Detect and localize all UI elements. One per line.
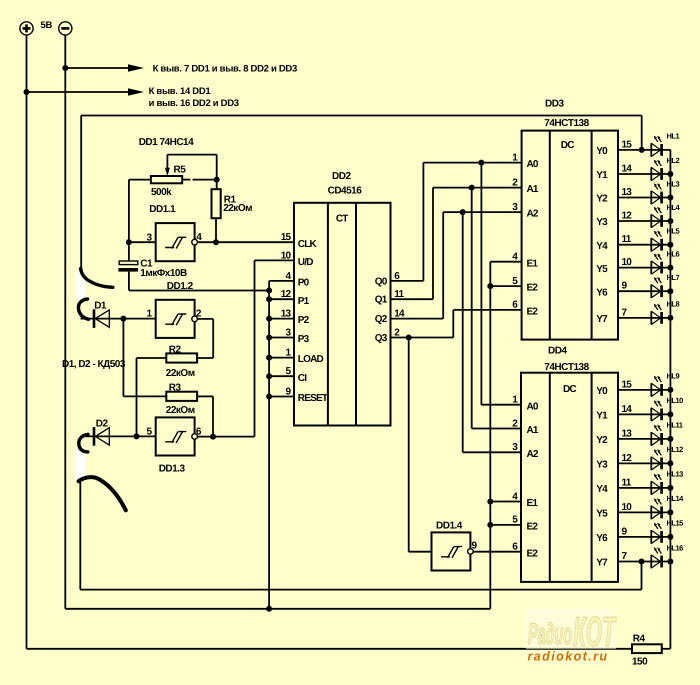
counter U DD2 CD4516 box xyxy=(294,203,391,426)
svg-text:DC: DC xyxy=(563,384,576,395)
power terminal +5V xyxy=(20,22,33,35)
svg-text:A1: A1 xyxy=(527,184,539,195)
svg-text:Q0: Q0 xyxy=(375,276,388,287)
svg-text:Y7: Y7 xyxy=(596,314,608,325)
svg-text:CLK: CLK xyxy=(298,239,318,250)
wire E2-5 DD4 xyxy=(490,524,521,526)
wire Q3 down to DD1.4 xyxy=(408,338,410,552)
junction RESET on P bus xyxy=(266,394,272,400)
wire D2 node xyxy=(81,435,156,437)
svg-text:Y3: Y3 xyxy=(596,460,608,471)
junction Q3 node xyxy=(406,335,412,341)
arrowhead 2 xyxy=(128,88,144,95)
svg-text:Y6: Y6 xyxy=(596,533,608,544)
svg-text:D1, D2 - КД503: D1, D2 - КД503 xyxy=(62,359,126,370)
capacitor C1 bottom plate xyxy=(118,268,138,272)
junction P3 on P bus xyxy=(266,335,272,341)
DD2 divider right xyxy=(355,203,357,426)
svg-text:74HCT138: 74HCT138 xyxy=(544,118,589,129)
junction R1 bottom on CLK wire xyxy=(213,239,219,245)
svg-text:12: 12 xyxy=(622,210,633,221)
svg-text:5В: 5В xyxy=(41,20,53,31)
wire Q1 up xyxy=(432,188,434,300)
diode D2 xyxy=(94,427,109,446)
wire stub RESET xyxy=(269,396,294,398)
svg-text:RESET: RESET xyxy=(298,393,328,404)
LED HL4 xyxy=(618,207,670,228)
R5 wiper arrowhead xyxy=(165,168,170,176)
svg-text:Y1: Y1 xyxy=(596,411,608,422)
junction CI on P bus xyxy=(266,373,272,379)
svg-text:Y7: Y7 xyxy=(596,558,608,569)
LED HL1 xyxy=(618,136,670,157)
resistor R3 xyxy=(166,392,197,401)
junction LED bus DD4 Y4 xyxy=(667,485,673,491)
wire - rail bottom horizontal xyxy=(65,608,490,610)
svg-text:HL13: HL13 xyxy=(667,470,684,479)
DD3 divider left xyxy=(549,131,551,340)
svg-text:15: 15 xyxy=(622,379,633,390)
capacitor C1 top plate xyxy=(119,261,138,265)
wire DD1.1 output to CLK xyxy=(197,241,294,243)
svg-text:R4: R4 xyxy=(633,633,646,644)
svg-text:DD1.2: DD1.2 xyxy=(167,281,194,292)
svg-text:500k: 500k xyxy=(151,187,172,198)
svg-text:LOAD: LOAD xyxy=(298,354,324,365)
hand-drawn stroke S4 xyxy=(79,477,126,510)
LED HL9 xyxy=(618,376,670,397)
junction LED bus DD4 Y3 xyxy=(667,460,673,466)
svg-text:Y3: Y3 xyxy=(596,217,608,228)
LED HL13 xyxy=(618,474,670,495)
schmitt trigger DD1.3 xyxy=(156,417,198,455)
wire D1 node vertical to R3 xyxy=(122,319,124,397)
svg-text:Y2: Y2 xyxy=(596,194,608,205)
wire DD1.1 input xyxy=(129,241,156,243)
svg-text:Q3: Q3 xyxy=(375,333,388,344)
svg-text:HL9: HL9 xyxy=(667,372,680,381)
junction E2-5 DD3 xyxy=(487,283,493,289)
wire DD1.3 output xyxy=(197,436,254,438)
svg-text:CT: CT xyxy=(336,213,348,224)
svg-text:P3: P3 xyxy=(298,334,310,345)
LED HL14 xyxy=(618,498,670,519)
white correction patch upper xyxy=(77,271,86,300)
LED HL3 xyxy=(618,183,670,204)
wire loop bottom xyxy=(80,589,641,591)
wire DD1.2 output xyxy=(197,318,213,320)
svg-text:Y0: Y0 xyxy=(596,146,608,157)
svg-text:22кОм: 22кОм xyxy=(166,368,195,379)
wire A1 line xyxy=(433,187,522,189)
wire A2 down xyxy=(462,212,464,452)
svg-text:Y1: Y1 xyxy=(596,170,608,181)
junction LED bus Y3 xyxy=(667,218,673,224)
junction LED bus DD4 Y0 xyxy=(667,387,673,393)
LED HL5 xyxy=(618,231,670,252)
wire left RC node vertical xyxy=(128,180,130,261)
svg-text:Радио: Радио xyxy=(528,618,572,651)
svg-text:HL1: HL1 xyxy=(667,132,680,141)
wire loop left upper xyxy=(80,116,82,271)
DD4 divider right xyxy=(591,373,593,582)
svg-text:Q2: Q2 xyxy=(375,314,388,325)
wire loop right upper xyxy=(641,116,643,150)
svg-text:HL14: HL14 xyxy=(667,494,685,503)
svg-text:HL2: HL2 xyxy=(667,156,680,165)
svg-text:22кОм: 22кОм xyxy=(223,203,252,214)
wire A2 to DD4 xyxy=(463,451,521,453)
wire R2 left vertical down xyxy=(136,358,138,436)
wire R5 right to R1 top b xyxy=(193,179,217,181)
svg-text:HL5: HL5 xyxy=(667,227,680,236)
wire Q2 out xyxy=(391,318,444,320)
svg-text:DD1.3: DD1.3 xyxy=(159,463,186,474)
svg-text:DC: DC xyxy=(561,140,574,151)
svg-text:Y5: Y5 xyxy=(596,264,608,275)
watermark halo xyxy=(526,609,616,649)
decoder U DD4 74HCT138 box xyxy=(521,373,618,582)
svg-text:Y0: Y0 xyxy=(596,386,608,397)
power terminal minus xyxy=(59,22,72,35)
decoder U DD3 74HCT138 box xyxy=(522,131,618,340)
wire stub P1 xyxy=(269,298,294,300)
wire Q3 up xyxy=(452,310,454,338)
wire A1 down xyxy=(471,188,473,429)
junction A0 split xyxy=(478,160,484,166)
wire loop left lower xyxy=(79,480,81,590)
wire stub P2 xyxy=(269,318,294,320)
wire E1 DD3 xyxy=(490,261,521,263)
resistor R5 xyxy=(151,176,182,183)
svg-text:12: 12 xyxy=(622,453,633,464)
junction P2 on P bus xyxy=(266,316,272,322)
svg-text:HL6: HL6 xyxy=(667,249,680,258)
junction E1 DD4 xyxy=(487,499,493,505)
svg-text:11: 11 xyxy=(622,477,632,488)
schmitt trigger DD1.4 xyxy=(432,532,474,570)
wire stub CI xyxy=(269,375,294,377)
diode D1 xyxy=(94,309,109,328)
svg-text:E2: E2 xyxy=(527,548,539,559)
svg-text:150: 150 xyxy=(632,657,648,668)
hand-drawn hook at D2 xyxy=(79,434,88,452)
wire R5 wiper top xyxy=(167,154,216,156)
junction E2-5 DD4 xyxy=(487,522,493,528)
wire loop right lower xyxy=(641,562,643,590)
wire E1 DD4 xyxy=(490,501,521,503)
wire R5 right to R1 top a xyxy=(182,179,190,181)
junction loop on HL1 wire xyxy=(639,147,645,153)
svg-text:E2: E2 xyxy=(527,522,539,533)
junction R5-R1 xyxy=(214,177,220,183)
svg-text:Y4: Y4 xyxy=(596,484,608,495)
svg-text:DD1 74HC14: DD1 74HC14 xyxy=(139,137,194,148)
wire DD1.2 out vertical to R2 xyxy=(212,319,214,358)
svg-text:Y6: Y6 xyxy=(596,287,608,298)
wire A2 line xyxy=(443,211,521,213)
wire LED bus vertical xyxy=(669,150,671,649)
svg-text:Y2: Y2 xyxy=(596,435,608,446)
wire R5 wiper arrow stem xyxy=(166,155,168,170)
node D1 junction xyxy=(120,316,126,322)
junction LED bus Y5 xyxy=(667,265,673,271)
wire + rail bottom horizontal xyxy=(27,648,633,650)
wire loop top xyxy=(81,115,642,117)
junction LED bus DD4 Y5 xyxy=(667,509,673,515)
svg-text:U/D: U/D xyxy=(298,257,313,268)
wire Q3 out xyxy=(391,337,454,339)
svg-text:10: 10 xyxy=(622,257,633,268)
LED HL15 xyxy=(618,523,670,544)
wire stub LOAD xyxy=(269,357,294,359)
junction LED bus Y1 xyxy=(667,171,673,177)
svg-text:10: 10 xyxy=(622,502,633,513)
junction LOAD on P bus xyxy=(266,355,272,361)
DD2 divider left xyxy=(327,203,329,426)
svg-text:CD4516: CD4516 xyxy=(328,186,363,197)
wire R1 top vertical xyxy=(216,155,218,190)
svg-text:D1: D1 xyxy=(94,300,107,311)
wire stub P3 xyxy=(269,337,294,339)
svg-text:HL3: HL3 xyxy=(667,179,680,188)
svg-text:HL8: HL8 xyxy=(667,300,680,309)
svg-text:DD3: DD3 xyxy=(545,99,564,110)
wire R5 left xyxy=(129,179,151,181)
wire R3 left xyxy=(123,395,166,397)
junction A2 split xyxy=(460,209,466,215)
schmitt trigger DD1.2 xyxy=(156,300,198,338)
svg-text:radiokot.ru: radiokot.ru xyxy=(528,649,609,664)
wire R4 right xyxy=(662,648,671,650)
junction ground wire on P bus xyxy=(266,288,272,294)
wire - rail vertical xyxy=(64,35,66,609)
white correction patch lower xyxy=(76,449,86,479)
wire R3 right xyxy=(197,395,213,397)
svg-text:HL7: HL7 xyxy=(667,273,680,282)
svg-text:К выв. 7 DD1 и выв. 8 DD2 и DD: К выв. 7 DD1 и выв. 8 DD2 и DD3 xyxy=(153,63,297,74)
svg-text:P2: P2 xyxy=(298,315,310,326)
hand-drawn stroke S1 xyxy=(81,269,113,288)
wire U/D stub xyxy=(255,259,295,261)
junction RC node at DD1.1 input xyxy=(126,239,132,245)
svg-text:A2: A2 xyxy=(527,449,539,460)
wire Q0 out xyxy=(391,280,424,282)
wire E2-5 DD3 xyxy=(490,285,521,287)
junction LED bus DD4 Y2 xyxy=(667,436,673,442)
junction LED bus Y4 xyxy=(667,242,673,248)
wire R2 right xyxy=(197,357,213,359)
junction LED bus Y2 xyxy=(667,195,673,201)
svg-text:HL16: HL16 xyxy=(667,543,684,552)
wire arrow 1 xyxy=(65,67,129,69)
wire Q1 out xyxy=(391,298,434,300)
wire Q2 up xyxy=(442,212,444,319)
junction P1 on P bus xyxy=(266,296,272,302)
junction LED bus DD4 Y1 xyxy=(667,411,673,417)
watermark Radio KOT xyxy=(528,608,617,655)
svg-text:DD1.1: DD1.1 xyxy=(149,204,176,215)
svg-text:HL12: HL12 xyxy=(667,445,684,454)
DD4 divider left xyxy=(549,373,551,582)
LED HL12 xyxy=(618,449,670,470)
LED HL11 xyxy=(618,425,670,446)
wire A0 to DD4 xyxy=(481,404,521,406)
resistor R4 xyxy=(632,644,662,653)
svg-text:P0: P0 xyxy=(298,278,310,289)
DD3 divider right xyxy=(591,131,593,340)
junction LED bus DD4 Y7 xyxy=(667,559,673,565)
wire ground node horizontal xyxy=(129,290,269,292)
wire + rail vertical xyxy=(26,35,28,649)
arrowhead 1 xyxy=(128,64,144,71)
svg-text:CI: CI xyxy=(298,373,307,384)
svg-text:HL11: HL11 xyxy=(667,421,683,430)
junction R2 on D2 wire xyxy=(134,433,140,439)
wire DD1.4 input xyxy=(409,551,432,553)
LED HL6 xyxy=(618,253,670,274)
junction arrow2 on + rail xyxy=(24,89,30,95)
wire D1 node xyxy=(81,318,156,320)
svg-text:HL15: HL15 xyxy=(667,519,684,528)
junction LED bus Y6 xyxy=(667,288,673,294)
svg-text:HL4: HL4 xyxy=(667,203,681,212)
svg-text:15: 15 xyxy=(281,232,292,243)
wire A0 line xyxy=(423,162,521,164)
wire R2 left xyxy=(137,357,167,359)
svg-text:DD2: DD2 xyxy=(332,171,351,182)
svg-text:22кОм: 22кОм xyxy=(166,405,195,416)
junction arrow1 on - rail xyxy=(62,65,68,71)
wire C1 bottom xyxy=(128,272,130,291)
junction A1 split xyxy=(469,185,475,191)
junction P bus on - rail xyxy=(266,606,272,612)
svg-text:Y4: Y4 xyxy=(596,241,608,252)
svg-text:A1: A1 xyxy=(527,425,539,436)
junction LED bus Y7 xyxy=(667,315,673,321)
LED HL2 xyxy=(618,160,670,181)
svg-text:E2: E2 xyxy=(527,307,539,318)
wire E bus vertical xyxy=(489,262,491,609)
wire A1 to DD4 xyxy=(472,428,521,430)
wire arrow 2 xyxy=(27,91,130,93)
wire Q0 up xyxy=(422,163,424,281)
wire E3 line to DD3 xyxy=(453,309,521,311)
wire DD1.3 output up to U/D xyxy=(254,260,256,436)
junction LED bus DD4 Y6 xyxy=(667,534,673,540)
wire P bus vertical xyxy=(268,281,270,609)
wire R1 bottom xyxy=(215,218,217,242)
wire stub P0 xyxy=(269,280,294,282)
svg-text:13: 13 xyxy=(622,187,633,198)
svg-text:R5: R5 xyxy=(174,165,187,176)
LED HL8 xyxy=(618,304,670,325)
svg-text:Q1: Q1 xyxy=(375,295,388,306)
svg-text:К выв. 14 DD1: К выв. 14 DD1 xyxy=(149,86,212,97)
svg-text:DD4: DD4 xyxy=(548,345,567,356)
svg-text:E2: E2 xyxy=(527,283,539,294)
hand-drawn hook at D1 xyxy=(78,299,88,319)
svg-text:74HCT138: 74HCT138 xyxy=(544,362,589,373)
svg-text:13: 13 xyxy=(622,428,633,439)
svg-text:P1: P1 xyxy=(298,296,310,307)
svg-text:14: 14 xyxy=(622,404,633,415)
svg-text:E1: E1 xyxy=(527,258,539,269)
schmitt trigger DD1.1 xyxy=(156,223,198,261)
svg-text:15: 15 xyxy=(622,139,633,150)
LED HL10 xyxy=(618,400,670,421)
svg-text:DD1.4: DD1.4 xyxy=(436,520,463,531)
LED HL7 xyxy=(618,277,670,298)
svg-text:E1: E1 xyxy=(527,498,539,509)
resistor R1 xyxy=(212,189,221,218)
svg-text:A0: A0 xyxy=(527,401,539,412)
resistor R2 xyxy=(166,353,197,362)
junction R3 on DD1.3 output xyxy=(210,434,216,440)
LED HL16 xyxy=(618,547,670,568)
wire R3 right vertical down xyxy=(212,396,214,436)
svg-text:11: 11 xyxy=(622,234,632,245)
wire DD1.4 output xyxy=(473,551,521,553)
junction loop on HL16 wire xyxy=(639,559,645,565)
svg-text:1мкФх10В: 1мкФх10В xyxy=(140,268,187,279)
svg-text:A0: A0 xyxy=(527,159,539,170)
svg-text:Y5: Y5 xyxy=(596,509,608,520)
svg-text:A2: A2 xyxy=(527,209,539,220)
svg-text:HL10: HL10 xyxy=(667,396,684,405)
svg-text:14: 14 xyxy=(622,163,633,174)
wire A0 down xyxy=(480,163,482,405)
svg-text:D2: D2 xyxy=(96,418,109,429)
svg-text:и выв. 16 DD2 и DD3: и выв. 16 DD2 и DD3 xyxy=(149,98,239,109)
